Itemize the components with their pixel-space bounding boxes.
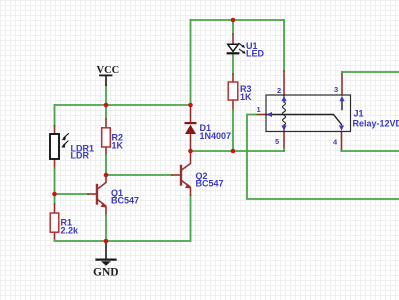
- wire relay pin4 to right edge: [342, 132, 399, 152]
- svg-text:5: 5: [275, 137, 279, 146]
- relay common arm pin1: [266, 115, 342, 125]
- relay coil: [283, 96, 286, 131]
- relay pin number 3: [334, 85, 338, 94]
- junction node top rail/LED: [231, 18, 236, 23]
- wire relay pin1 run: [247, 115, 399, 200]
- relay pin3 arrow: [339, 96, 344, 101]
- wire LED top lead: [232, 20, 234, 44]
- wire node to Q1 base: [55, 193, 97, 195]
- transistor Q2 BC547: [181, 152, 224, 189]
- svg-text:1: 1: [257, 105, 261, 114]
- relay pin number 5: [275, 137, 279, 146]
- LED U1: [227, 41, 265, 59]
- wire relay pin5 to node row: [283, 132, 285, 152]
- svg-text:Relay-12VDC: Relay-12VDC: [353, 119, 399, 129]
- svg-text:J1: J1: [354, 109, 364, 119]
- svg-text:GND: GND: [93, 267, 119, 279]
- svg-text:3: 3: [334, 85, 338, 94]
- transistor Q1 BC547: [97, 176, 139, 208]
- resistor R2 1K: [102, 128, 124, 151]
- wire node to Q2 base: [106, 174, 180, 176]
- photoresistor LDR1: [50, 134, 94, 161]
- relay pin2 arrow: [281, 96, 286, 101]
- wire relay pin2 drop: [283, 20, 285, 95]
- svg-text:BC547: BC547: [111, 196, 139, 206]
- wire LDR top drop: [54, 105, 56, 134]
- diode D1 1N4007: [185, 122, 232, 141]
- wire LDR bottom: [54, 159, 56, 194]
- relay labels J1 Relay-12VDC: [353, 109, 399, 129]
- relay pin1 arrow: [267, 112, 272, 117]
- svg-text:LED: LED: [246, 49, 265, 59]
- wire node row y=151: [191, 150, 285, 152]
- junction node ground rail: [104, 239, 109, 244]
- wire D1 bottom lead: [190, 134, 192, 151]
- relay NC contact pin3: [341, 102, 343, 110]
- wire R1 bottom to ground rail: [55, 188, 191, 241]
- wire D1 top lead: [190, 105, 192, 122]
- svg-text:4: 4: [333, 138, 338, 147]
- ground: [93, 241, 119, 279]
- svg-text:2.2k: 2.2k: [61, 226, 80, 236]
- svg-text:1K: 1K: [240, 92, 252, 102]
- relay pin number 2: [277, 86, 281, 95]
- wire VCC symbol drop: [105, 85, 107, 105]
- wire R2 bottom to node: [105, 147, 107, 175]
- wire node to R1 top: [54, 194, 56, 213]
- wire Q1 emitter to ground rail: [105, 207, 107, 241]
- relay pin4 arrow: [339, 125, 344, 130]
- resistor R3 1K: [228, 82, 252, 102]
- resistor R1 2.2k: [50, 213, 79, 236]
- relay pin number 1: [257, 105, 261, 114]
- junction node VCC rail/R2: [104, 103, 109, 108]
- relay pin5 arrow: [281, 125, 286, 130]
- wire VCC rail y=105: [55, 104, 191, 106]
- wire riser to top rail: [190, 20, 192, 105]
- svg-text:1K: 1K: [112, 141, 124, 151]
- svg-text:BC547: BC547: [196, 179, 224, 189]
- relay pin number 4: [333, 138, 338, 147]
- wire LED to R3: [232, 55, 234, 82]
- wire top rail y=20: [191, 19, 285, 21]
- svg-text:LDR: LDR: [71, 151, 90, 161]
- relay J1 box: [266, 95, 351, 132]
- wire R2 top: [105, 105, 107, 128]
- junction node R3 bottom: [231, 149, 236, 154]
- junction node LDR/R1/Q1 base: [52, 192, 57, 197]
- svg-text:1N4007: 1N4007: [200, 131, 232, 141]
- VCC symbol: [97, 65, 120, 85]
- junction node R2/Q1 collector: [104, 173, 109, 178]
- svg-text:VCC: VCC: [97, 65, 120, 76]
- junction node Q2 collector: [188, 149, 193, 154]
- wire R3 bottom: [232, 100, 234, 151]
- junction node rail/D1 riser: [188, 103, 193, 108]
- svg-text:2: 2: [277, 86, 281, 95]
- wire relay pin3 to right edge: [342, 72, 399, 95]
